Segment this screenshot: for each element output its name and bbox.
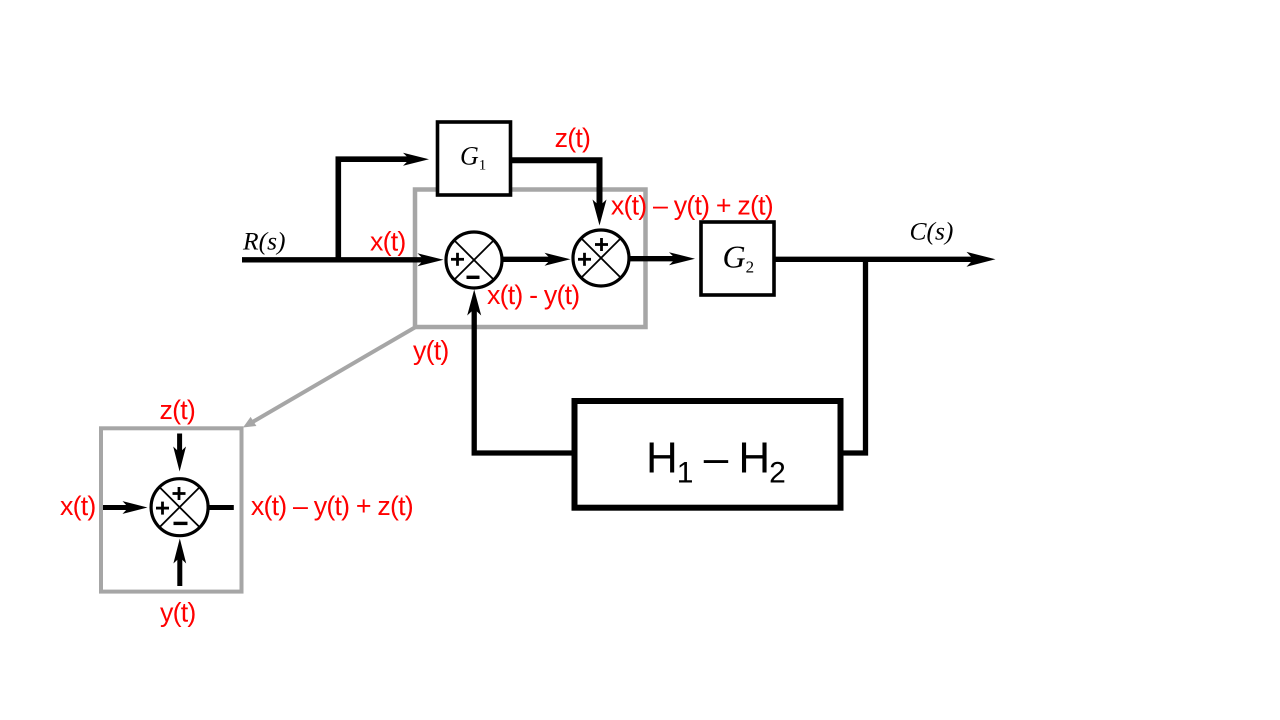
svg-text:x(t) – y(t) + z(t): x(t) – y(t) + z(t) [251, 491, 413, 521]
svg-text:z(t): z(t) [160, 395, 196, 425]
svg-text:x(t): x(t) [370, 226, 406, 256]
svg-text:H1 – H2: H1 – H2 [646, 433, 785, 489]
svg-text:x(t) – y(t) + z(t): x(t) – y(t) + z(t) [611, 190, 773, 220]
svg-text:y(t): y(t) [160, 597, 196, 627]
svg-text:R(s): R(s) [242, 227, 285, 256]
svg-text:z(t): z(t) [555, 123, 591, 153]
svg-text:C(s): C(s) [910, 217, 954, 246]
svg-text:y(t): y(t) [413, 335, 449, 365]
svg-text:x(t): x(t) [60, 491, 96, 521]
svg-text:x(t) - y(t): x(t) - y(t) [487, 280, 579, 310]
